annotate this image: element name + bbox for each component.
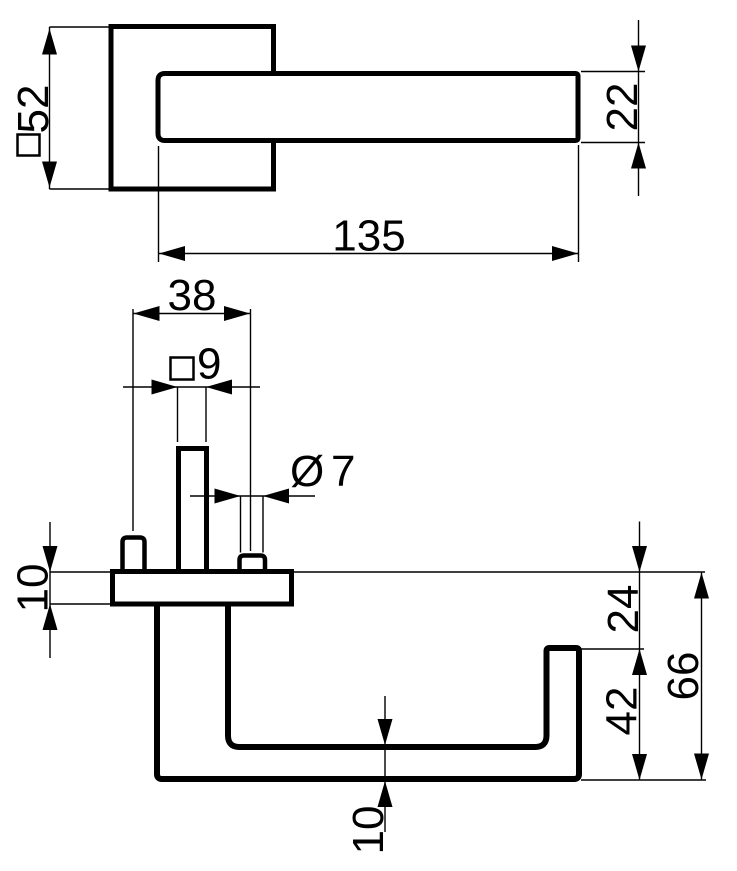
dim 66: arrow down: [694, 754, 709, 780]
dim diameter7: arrow pointing right: [215, 489, 241, 504]
dim 24 42: dimension line: [639, 522, 641, 781]
dim 10 flange: arrow up: [43, 604, 58, 630]
dim 42: arrow down at grip bottom: [632, 754, 647, 780]
dim 22: extension line top: [581, 71, 645, 73]
svg-text:7: 7: [331, 447, 355, 496]
dim diameter7: extension line right: [262, 496, 264, 553]
dim square9: extension line right: [205, 387, 207, 442]
side view: handle neck and grip profile: [157, 603, 579, 779]
dim 22: dimension line: [638, 20, 640, 196]
dim 52: square symbol: [18, 135, 40, 156]
svg-text:66: 66: [659, 652, 708, 701]
dim 52: dimension line: [49, 27, 51, 189]
dim 135: dimension line: [159, 253, 579, 255]
dim square9: extension line left: [177, 387, 179, 442]
svg-text:135: 135: [332, 212, 405, 261]
extension line grip bottom: [581, 779, 706, 781]
dim 22: extension line bottom: [581, 142, 645, 144]
svg-text:52: 52: [9, 85, 58, 134]
dim 10 grip: dimension line: [384, 696, 386, 832]
side view: right screw: [240, 556, 266, 572]
svg-text:10: 10: [9, 564, 58, 613]
svg-text:24: 24: [599, 585, 648, 634]
dim diameter7: dimension line: [190, 495, 315, 497]
dim 22: arrow up: [631, 143, 646, 169]
dim square9: arrow pointing left: [206, 380, 232, 395]
side view: left screw: [123, 538, 145, 572]
side view: flange top extension line: [50, 571, 706, 573]
dim 135: arrow right: [552, 246, 578, 261]
dim diameter7: extension line left: [240, 496, 242, 553]
dim square9: dimension line: [123, 386, 260, 388]
dim square9: arrow pointing right: [152, 380, 178, 395]
dim 52: arrow up: [42, 29, 57, 55]
dim 66: arrow up: [694, 573, 709, 599]
dim 10 grip: arrow down: [378, 719, 393, 745]
dim 10 flange: arrow down: [43, 546, 58, 572]
dim diameter7: arrow pointing left: [263, 489, 289, 504]
svg-text:38: 38: [168, 271, 217, 320]
dim 52: extension line bottom: [50, 188, 112, 190]
svg-text:42: 42: [598, 687, 647, 736]
svg-text:9: 9: [197, 340, 221, 389]
extension line grip top: [581, 648, 644, 650]
dim square9: square symbol: [171, 358, 194, 380]
dim 135: extension line left: [158, 146, 160, 262]
side view: flange bottom extension line: [50, 603, 113, 605]
dim 135: extension line right: [578, 145, 580, 262]
dim 38: extension line right: [250, 309, 252, 551]
dim 38: extension line left: [132, 309, 134, 531]
dim 52: arrow down: [42, 162, 57, 188]
top view: lever handle bar: [158, 74, 578, 141]
svg-text:Ø: Ø: [290, 447, 324, 496]
dim 52: extension line top: [50, 26, 112, 28]
dim 24: arrow down at flange top: [632, 546, 647, 572]
dim 38: arrow left: [134, 306, 160, 321]
dim 66: dimension line: [701, 572, 703, 780]
dim 135: arrow left: [159, 246, 185, 261]
dim 38: dimension line: [133, 313, 251, 315]
top view: square rose plate: [111, 27, 274, 190]
dim 22: arrow down: [631, 46, 646, 72]
svg-text:22: 22: [598, 83, 647, 132]
svg-text:10: 10: [344, 806, 393, 855]
dim 24 42: arrow up at grip top: [632, 649, 647, 675]
dim 10 grip: arrow up: [378, 781, 393, 807]
side view: square spindle: [179, 449, 207, 573]
side view: rose flange plate: [113, 572, 292, 605]
dim 38: arrow right: [224, 306, 250, 321]
dim 10 flange: dimension line: [49, 522, 51, 658]
